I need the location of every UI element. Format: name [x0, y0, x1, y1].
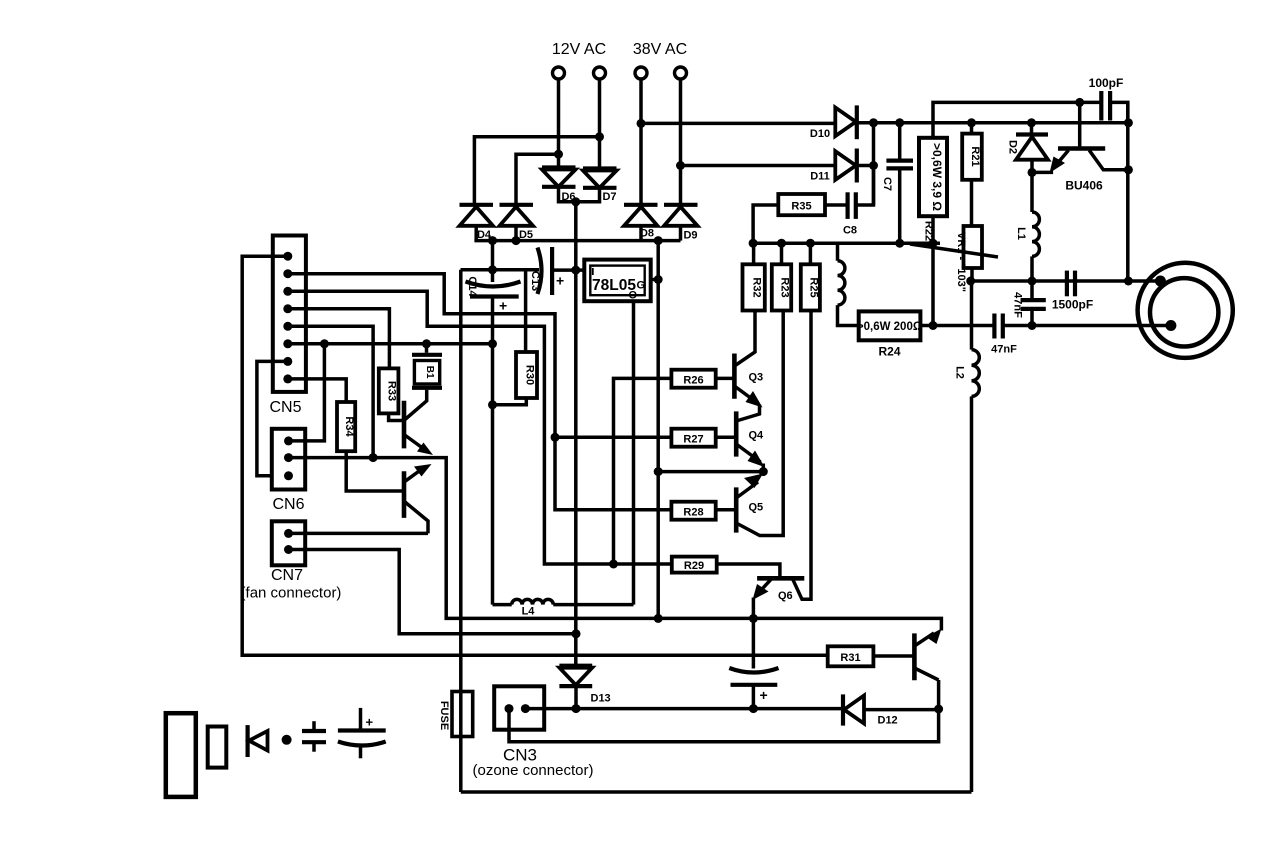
connector CN7 — [272, 521, 305, 565]
svg-text:12V AC: 12V AC — [552, 41, 606, 58]
resistor R24 — [859, 311, 921, 340]
CN3 pin 1 — [505, 704, 514, 713]
motor terminal bottom — [1165, 320, 1176, 331]
junction R30 on C14 column — [488, 400, 497, 409]
wire R35 left to mid rail — [753, 205, 778, 243]
transistor BU406 — [1032, 149, 1128, 174]
junction D2 top — [1027, 118, 1036, 127]
svg-text:C14: C14 — [466, 276, 478, 297]
legend capacitor — [302, 721, 326, 752]
svg-text:R27: R27 — [683, 434, 703, 446]
resistor R23 — [772, 264, 791, 310]
CN5 pin 7 — [283, 357, 292, 366]
inductor L4 — [493, 599, 634, 604]
svg-text:D7: D7 — [602, 191, 616, 203]
wire top feedback rail y123 — [874, 121, 1129, 125]
connector CN6 — [272, 429, 305, 490]
resistor R27 — [671, 429, 715, 447]
terminal T2 — [594, 67, 606, 79]
wire T3 tap to D10 — [641, 122, 835, 126]
diode D7 — [583, 169, 617, 188]
junction R23 top — [777, 239, 786, 248]
diode D4 — [460, 205, 494, 241]
wire VR1 bottom — [970, 268, 974, 281]
CN5 pin 1 — [283, 252, 292, 261]
motor terminal top — [1155, 276, 1166, 287]
junction on T3 wire — [637, 119, 646, 128]
connector CN5 — [273, 236, 306, 392]
wire mid rail — [753, 241, 940, 245]
inductor L1 — [1032, 172, 1039, 281]
junction C14 column on y270 — [488, 265, 497, 274]
resistor R28 — [671, 502, 715, 520]
wire CN5 pin4 to R33 — [288, 309, 390, 369]
junction +12V at 78L05 input — [571, 266, 580, 275]
wire CN5 pin5 to emitter bus — [288, 326, 373, 457]
wire CN6 pin1 riser to pin6 row — [289, 344, 325, 441]
junction R32 top — [749, 239, 758, 248]
svg-text:B1: B1 — [424, 366, 435, 379]
CN5 pin 4 — [283, 304, 292, 313]
capacitor C14 — [466, 282, 521, 297]
junction T1 loop — [554, 150, 563, 159]
junction R22 mid rail — [929, 239, 938, 248]
wire rail y102 right of 100pF — [1110, 102, 1128, 122]
capacitor 100pF — [1101, 91, 1110, 121]
inductor L3 — [838, 243, 859, 325]
resistor R22 — [919, 138, 947, 216]
wire net y270 C14/C13 — [461, 268, 540, 272]
junction motor top row — [1124, 277, 1133, 286]
svg-text:L1: L1 — [1015, 227, 1027, 240]
junction D13 bottom — [572, 704, 581, 713]
wire R24 right row — [920, 324, 994, 328]
wire T4 down to D9 — [679, 79, 683, 205]
wire bottom frame — [461, 790, 972, 794]
svg-text:R24: R24 — [878, 345, 900, 359]
junction Q6 emitter on bus A — [749, 614, 758, 623]
svg-text:>0,6W 3,9 Ω: >0,6W 3,9 Ω — [930, 143, 944, 211]
diode D10 — [835, 105, 873, 139]
CN5 pin 5 — [283, 322, 292, 331]
legend junction dot — [282, 735, 292, 745]
legend rect large — [166, 713, 196, 797]
svg-text:>0,6W 200Ω: >0,6W 200Ω — [857, 321, 922, 333]
junction C14 top on bus — [488, 236, 497, 245]
diode D8 — [624, 205, 658, 241]
transistor Q6 — [753, 311, 812, 619]
terminal T1 — [553, 67, 565, 79]
svg-text:(ozone connector): (ozone connector) — [473, 762, 594, 779]
wire R30 bottom to C14 column — [493, 398, 527, 405]
junction D13 column — [572, 629, 581, 638]
wire BU406 base riser — [1078, 102, 1082, 147]
wire emitter bus to bus A — [289, 458, 942, 631]
wire R21 top — [970, 123, 974, 134]
junction pin5 on emitter bus — [369, 453, 378, 462]
junction G column on bus A — [654, 614, 663, 623]
wire R30 top branch — [524, 270, 528, 352]
diode D11 — [835, 149, 873, 183]
resistor R32 — [743, 264, 765, 310]
capacitor C13 — [538, 247, 553, 295]
resistor R26 — [671, 370, 715, 388]
svg-text:+: + — [760, 687, 768, 703]
wire T2 loop to D4 — [474, 137, 599, 205]
wire R26 column — [614, 378, 672, 564]
svg-text:D12: D12 — [878, 715, 898, 727]
wire CN7 pin2 to D13 column — [289, 550, 577, 634]
wire 78L05 O column down to L4 — [632, 301, 636, 604]
wire R22 top to rail y102 — [933, 102, 1101, 137]
wire R27 to Q4 base — [716, 436, 737, 440]
resistor R30 — [516, 352, 537, 398]
transistor Q3 — [734, 311, 762, 422]
wire G column down to bus A — [656, 241, 660, 619]
wire CN3 pin2 row to D12 — [525, 707, 843, 711]
svg-text:(fan connector): (fan connector) — [241, 585, 342, 602]
CN5 pin 2 — [283, 269, 292, 278]
VR1 wiper — [910, 244, 998, 257]
svg-text:R21: R21 — [969, 146, 981, 166]
CN7 pin 1 — [284, 529, 293, 538]
diode D6 — [542, 168, 576, 187]
wire C13 to 78L05 input — [552, 268, 584, 272]
wire 78L05 G pin — [651, 278, 659, 282]
wire R29 to Q6 base — [717, 564, 780, 578]
junction big cap bottom — [749, 704, 758, 713]
wire C14 top column — [491, 241, 495, 282]
terminal T3 — [635, 67, 647, 79]
big capacitor near Q6 — [729, 618, 778, 708]
svg-text:G: G — [637, 280, 646, 292]
wire CN5 pin7 to CN6 pin3 — [257, 361, 289, 475]
transistor Q4 — [736, 411, 764, 471]
CN3 pin 2 — [521, 704, 530, 713]
resistor R29 — [672, 557, 717, 573]
wire CN5 pin2 to R27/R28 column — [288, 274, 672, 510]
svg-text:D10: D10 — [810, 128, 830, 140]
svg-text:R28: R28 — [683, 507, 703, 519]
wire R27 row — [555, 436, 671, 440]
inductor L2 — [972, 281, 980, 792]
diode D13 — [559, 666, 592, 709]
wire T3 down to D8 — [639, 79, 643, 205]
fuse F1 — [452, 270, 473, 792]
wire D6 D7 link — [559, 188, 600, 202]
svg-text:R29: R29 — [684, 560, 704, 572]
junction C7 top — [895, 118, 904, 127]
wire B1 bottom to Q1 collector — [405, 390, 427, 420]
junction R21 top — [967, 118, 976, 127]
svg-text:C7: C7 — [881, 177, 893, 191]
junction D2 BU406 emitter L1 — [1028, 168, 1037, 177]
junction Q4 Q5 — [759, 467, 768, 476]
junction C7 bottom — [895, 239, 904, 248]
junction on T4 wire — [676, 161, 685, 170]
svg-text:R30: R30 — [524, 365, 536, 385]
wire R33 bottom to Q1 base — [389, 413, 405, 420]
motor M — [1138, 263, 1233, 358]
wire R23 top — [780, 243, 784, 264]
svg-text:Q6: Q6 — [778, 590, 793, 602]
svg-text:R35: R35 — [791, 201, 811, 213]
wire CN5 pin8 to R34 — [288, 379, 346, 402]
junction G column Q4 emitter — [654, 467, 663, 476]
svg-text:R31: R31 — [840, 652, 860, 664]
svg-text:D13: D13 — [591, 693, 611, 705]
junction pin2 column R27 — [551, 433, 560, 442]
svg-text:L2: L2 — [954, 366, 966, 379]
terminal T4 — [675, 67, 687, 79]
regulator U1 78L05 — [584, 260, 650, 302]
wire motor bottom row — [1003, 324, 1171, 328]
svg-text:CN5: CN5 — [269, 399, 301, 416]
junction B1 top — [422, 339, 431, 348]
junction R22 bottom — [929, 321, 938, 330]
wire VR1 bottom row to motor — [971, 279, 1161, 283]
buzzer B1 — [412, 344, 442, 388]
svg-text:+: + — [499, 298, 507, 314]
node +12V junction — [571, 197, 580, 206]
wire T4 tap to D11 — [681, 164, 836, 168]
transistor Q7 (bottom right) — [914, 629, 941, 681]
CN6 pin 1 — [284, 436, 293, 445]
wire R21 to VR1 — [970, 180, 974, 226]
junction R25 top — [806, 239, 815, 248]
svg-text:D2: D2 — [1007, 140, 1019, 154]
wire R22 bottom column — [931, 216, 935, 325]
svg-text:47nF: 47nF — [991, 344, 1017, 356]
wire CN3 pin1 return — [509, 680, 939, 742]
junction rail y123 right end — [1124, 118, 1133, 127]
wire C14 bottom column to L4 — [491, 297, 495, 605]
junction VR1 bottom — [966, 277, 975, 286]
svg-text:R26: R26 — [683, 375, 703, 387]
wire T2 down to D7 — [598, 79, 602, 169]
svg-text:47nF: 47nF — [1012, 292, 1024, 318]
wire rectifier minus bus — [474, 239, 680, 243]
diode D9 — [664, 205, 698, 241]
resistor R33 — [379, 368, 399, 413]
resistor R25 — [801, 264, 820, 310]
wire D10/D11 junction column — [872, 123, 876, 205]
diode D2 — [1016, 123, 1048, 173]
svg-text:R34: R34 — [343, 416, 355, 437]
resistor R21 — [962, 134, 982, 180]
svg-text:VR1 - "103": VR1 - "103" — [955, 232, 967, 292]
CN6 pin 2 — [284, 453, 293, 462]
svg-text:R23: R23 — [779, 277, 791, 297]
wire 100pF column down to motor — [1126, 102, 1130, 281]
wire R34 bottom to Q2 base — [346, 451, 404, 491]
svg-text:Q3: Q3 — [749, 372, 764, 384]
junction D12 right — [934, 705, 943, 714]
svg-text:CN6: CN6 — [272, 496, 304, 513]
transistor Q1 (upper left) — [404, 401, 433, 455]
svg-text:BU406: BU406 — [1065, 179, 1103, 193]
wire R32 top — [752, 243, 756, 264]
junction R26 column on R29 row — [609, 560, 618, 569]
wire CN5 pin1 to R31 rail — [242, 256, 828, 655]
junction D5 on bus — [512, 236, 521, 245]
junction D11 — [869, 161, 878, 170]
svg-text:1500pF: 1500pF — [1052, 298, 1093, 312]
svg-text:R32: R32 — [751, 277, 763, 297]
wire CN5 pin6 row — [288, 342, 493, 346]
svg-text:C8: C8 — [843, 225, 857, 237]
svg-text:+: + — [366, 715, 374, 730]
svg-text:CN7: CN7 — [271, 567, 303, 584]
legend diode — [248, 725, 268, 757]
svg-text:FUSE: FUSE — [438, 701, 450, 730]
transistor Q2 (lower left) — [404, 464, 432, 533]
wire CN7 pin1 to Q2 collector — [289, 532, 429, 536]
CN5 pin 3 — [283, 287, 292, 296]
svg-text:O: O — [629, 290, 638, 302]
wire T1 loop to D5 — [516, 154, 559, 205]
transistor Q5 — [736, 311, 783, 536]
diode D12 — [843, 694, 939, 725]
wire +12V column down to D13 — [574, 202, 578, 666]
junction BU406 base riser — [1075, 98, 1084, 107]
svg-text:R33: R33 — [386, 381, 398, 401]
capacitor C8 — [825, 166, 874, 219]
junction BU406 collector — [1124, 165, 1133, 174]
capacitor 47nF horizontal — [994, 314, 1002, 339]
wire R31 to Q7 base — [873, 654, 914, 658]
junction CN6 pin1 riser — [320, 339, 329, 348]
svg-text:D9: D9 — [683, 230, 697, 242]
svg-text:C13: C13 — [529, 271, 541, 291]
junction G pin — [654, 275, 663, 284]
resistor R34 — [337, 402, 355, 451]
svg-text:100pF: 100pF — [1089, 76, 1124, 90]
CN5 pin 8 — [283, 374, 292, 383]
wire Q4 emitter row — [658, 470, 763, 474]
svg-text:D8: D8 — [640, 228, 654, 240]
potentiometer VR1 — [964, 226, 983, 268]
CN5 pin 6 — [283, 339, 292, 348]
capacitor C7 — [886, 123, 913, 243]
CN6 pin 3 — [284, 471, 293, 480]
wire T1 down to D6 — [557, 79, 561, 168]
svg-text:+: + — [556, 273, 564, 289]
capacitor 1500pF — [1067, 271, 1075, 297]
junction pin6 row on C14 column — [488, 339, 497, 348]
wire R26 to Q3 base — [716, 377, 735, 381]
svg-text:D11: D11 — [810, 171, 830, 183]
wire R28 to Q5 base — [716, 508, 737, 512]
diode D5 — [500, 205, 534, 241]
svg-text:i: i — [591, 263, 595, 278]
svg-text:Q4: Q4 — [749, 430, 765, 442]
capacitor 47nF vertical — [1021, 281, 1046, 326]
legend electrolytic capacitor — [338, 708, 386, 758]
legend rect small — [208, 727, 227, 768]
svg-text:38V AC: 38V AC — [633, 41, 687, 58]
CN7 pin 2 — [284, 545, 293, 554]
junction L1 bottom — [1028, 277, 1037, 286]
svg-text:Q5: Q5 — [749, 502, 764, 514]
svg-text:R25: R25 — [807, 277, 819, 297]
svg-text:L4: L4 — [522, 606, 536, 618]
junction 47nF bottom — [1028, 321, 1037, 330]
wire CN5 pin3 to R29 column — [288, 291, 672, 564]
connector CN3 — [494, 686, 544, 729]
junction T2 loop — [595, 132, 604, 141]
junction 78L05 G column on bus — [654, 236, 663, 245]
resistor R35 — [778, 194, 825, 215]
resistor R31 — [828, 646, 874, 666]
wire R25 top — [809, 243, 813, 264]
junction D10 — [869, 118, 878, 127]
